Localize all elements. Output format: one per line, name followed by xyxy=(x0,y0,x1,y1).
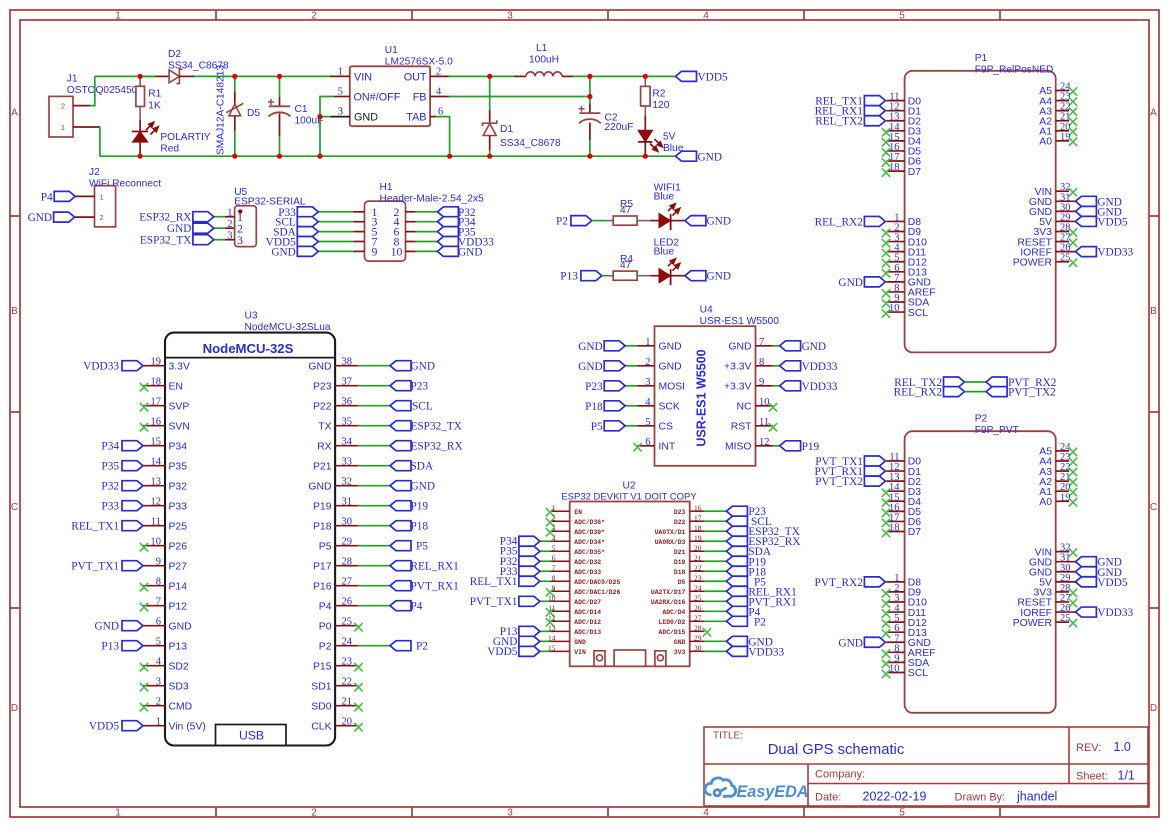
wire U2 P23 xyxy=(704,510,726,512)
svg-text:12: 12 xyxy=(759,437,770,448)
no-connect X xyxy=(546,608,554,616)
svg-text:ADC/D36*: ADC/D36* xyxy=(574,519,605,526)
net flag ESP32_TX xyxy=(390,421,411,431)
wire +12V top rail left xyxy=(95,75,156,77)
P1 pin 29 5V xyxy=(1039,212,1075,228)
P1 pin 18 D7 xyxy=(886,162,921,178)
no-connect X xyxy=(882,529,890,537)
svg-text:1: 1 xyxy=(645,337,650,348)
svg-text:D22: D22 xyxy=(674,519,686,526)
U2 pin 23 D5 xyxy=(678,573,705,585)
svg-text:POWER: POWER xyxy=(1013,257,1053,268)
svg-text:OUT: OUT xyxy=(404,72,427,84)
svg-text:USB: USB xyxy=(239,729,264,743)
H1 pins 3/4 xyxy=(353,215,416,229)
svg-text:USR-ES1 W5500: USR-ES1 W5500 xyxy=(700,316,780,327)
no-connect X xyxy=(882,168,890,176)
wire U2 PVT_RX1 xyxy=(704,600,726,602)
svg-text:19: 19 xyxy=(151,357,162,368)
U2 pin 8 ADC/DAC0/D25 xyxy=(551,573,621,585)
U2 pin 15 VIN xyxy=(548,644,586,656)
svg-text:ADC/D33: ADC/D33 xyxy=(574,569,601,576)
svg-text:7: 7 xyxy=(552,563,556,572)
wire U3 P19 xyxy=(358,505,390,507)
U3 pin 19 3.3V xyxy=(143,357,190,373)
svg-text:NC: NC xyxy=(736,402,752,413)
svg-text:D19: D19 xyxy=(674,559,686,566)
net flag GND xyxy=(726,636,747,646)
svg-text:GND: GND xyxy=(838,637,862,649)
U4 pin 4 SCK xyxy=(637,397,680,413)
svg-text:28: 28 xyxy=(342,557,353,568)
svg-text:1/1: 1/1 xyxy=(1118,769,1135,783)
P2 pin 16 D5 xyxy=(886,502,921,518)
svg-text:8: 8 xyxy=(759,357,764,368)
U4 pin 12 MISO xyxy=(725,437,773,453)
no-connect X xyxy=(703,628,711,636)
U3 pin 13 P32 xyxy=(143,477,187,493)
connector J2 WiFi Reconnect xyxy=(75,186,115,227)
svg-text:2: 2 xyxy=(156,697,161,708)
wire U2 P5 xyxy=(704,580,726,582)
regulator U1 LM2576SX-5.0 xyxy=(330,66,449,126)
svg-text:EN: EN xyxy=(574,509,582,516)
wire U3 GND xyxy=(358,485,390,487)
net flag GND xyxy=(193,223,214,233)
P1 pin 1 D8 xyxy=(886,212,921,228)
svg-text:Red: Red xyxy=(160,144,179,155)
svg-text:ADC/D13: ADC/D13 xyxy=(574,629,601,636)
U3 pin 8 P14 xyxy=(143,577,187,593)
net flag P35 xyxy=(519,546,540,556)
no-connect X xyxy=(882,589,890,597)
svg-text:CMD: CMD xyxy=(169,701,193,712)
svg-text:ESP32_RX: ESP32_RX xyxy=(411,441,463,453)
svg-text:27: 27 xyxy=(342,577,353,588)
P2 pin 12 D1 xyxy=(886,462,921,478)
no-connect X xyxy=(1069,138,1077,146)
svg-text:OSTOQ025450: OSTOQ025450 xyxy=(67,85,138,96)
svg-text:P32: P32 xyxy=(169,481,188,492)
wire ground bottom rail xyxy=(100,155,676,157)
net flag PVT_RX2 xyxy=(986,377,1007,387)
schottky diode D1 SS34_C8678 xyxy=(483,76,497,156)
U3 pin 2 CMD xyxy=(143,697,192,713)
svg-text:REL_RX1: REL_RX1 xyxy=(411,561,459,573)
svg-text:RX: RX xyxy=(317,441,332,452)
LED POLARTIY Red (reverse polarity indicator) xyxy=(132,120,158,156)
svg-text:19: 19 xyxy=(1060,492,1071,503)
svg-text:POLARTIY: POLARTIY xyxy=(160,132,210,143)
svg-text:ADC/D15: ADC/D15 xyxy=(659,629,686,636)
U2 pin 10 ADC/D27 xyxy=(548,593,601,605)
svg-text:5: 5 xyxy=(899,11,905,22)
svg-text:GND: GND xyxy=(578,361,602,373)
capacitor C2 220uF xyxy=(579,76,601,156)
svg-text:P2: P2 xyxy=(416,641,428,653)
P2 pin 23 A4 xyxy=(1039,452,1070,468)
svg-text:22: 22 xyxy=(694,563,702,572)
svg-text:P34: P34 xyxy=(169,441,188,452)
svg-text:GND: GND xyxy=(838,277,862,289)
net flag VDD33 xyxy=(122,361,143,371)
svg-text:GND: GND xyxy=(167,223,191,235)
svg-text:SCL: SCL xyxy=(908,308,928,319)
net flag P18 xyxy=(390,521,411,531)
no-connect X xyxy=(882,509,890,517)
net flag VDD5 xyxy=(1075,577,1096,587)
wire U4 P19 xyxy=(773,445,780,447)
U3 pin 30 P18 xyxy=(313,517,358,533)
svg-text:P21: P21 xyxy=(313,461,332,472)
svg-text:10: 10 xyxy=(391,244,403,258)
svg-text:2: 2 xyxy=(436,67,441,78)
P2 pin 18 D7 xyxy=(886,522,921,538)
P1 pin 16 D5 xyxy=(886,142,921,158)
svg-text:4: 4 xyxy=(645,397,651,408)
svg-text:7: 7 xyxy=(759,337,764,348)
EasyEDA logo xyxy=(705,778,736,796)
U4 pin 8 +3.3V xyxy=(724,357,773,373)
wire U2 P13 xyxy=(540,630,551,632)
svg-text:34: 34 xyxy=(342,437,353,448)
U2 pin 20 D21 xyxy=(674,543,705,555)
svg-text:P1: P1 xyxy=(975,53,988,64)
svg-text:VDD5: VDD5 xyxy=(89,721,119,733)
no-connect X xyxy=(546,518,554,526)
svg-text:47: 47 xyxy=(620,260,632,271)
svg-text:RST: RST xyxy=(731,422,752,433)
svg-text:P12: P12 xyxy=(169,601,188,612)
svg-text:LM2576SX-5.0: LM2576SX-5.0 xyxy=(385,57,453,68)
svg-text:A0: A0 xyxy=(1039,497,1052,508)
wire U3 REL_RX1 xyxy=(358,565,390,567)
net flag SCL xyxy=(726,516,747,526)
svg-text:ADC/D35*: ADC/D35* xyxy=(574,549,605,556)
wire ON#/OFF to ground xyxy=(320,97,334,157)
net flag GND xyxy=(519,636,540,646)
net flag PVT_TX2 xyxy=(864,476,885,486)
svg-text:3: 3 xyxy=(645,377,650,388)
no-connect X xyxy=(882,158,890,166)
net flag P5 xyxy=(726,576,747,586)
svg-text:Header-Male-2.54_2x5: Header-Male-2.54_2x5 xyxy=(380,194,485,205)
U4 pin 9 +3.3V xyxy=(724,377,773,393)
U3 pin 24 P2 xyxy=(319,637,359,653)
wire U4 VDD33 xyxy=(773,365,780,367)
U1 pin 3 GND xyxy=(330,116,350,118)
net flag VDD5 xyxy=(122,721,143,731)
U3 pin 33 P21 xyxy=(313,457,358,473)
svg-text:EN: EN xyxy=(169,381,183,392)
P1 pin 30 GND xyxy=(1029,202,1075,218)
net flag P23 xyxy=(726,506,747,516)
U3 pin 5 P13 xyxy=(143,637,187,653)
svg-text:Dual GPS schematic: Dual GPS schematic xyxy=(768,742,905,758)
wire U4 VDD33 xyxy=(773,385,780,387)
U4 pin 11 RST xyxy=(731,417,773,433)
svg-text:VDD33: VDD33 xyxy=(83,361,119,373)
net flag P2 xyxy=(390,641,411,651)
no-connect X xyxy=(882,138,890,146)
svg-text:24: 24 xyxy=(694,583,702,592)
U3 pin 12 P33 xyxy=(143,497,187,513)
svg-text:VDD5: VDD5 xyxy=(487,646,517,658)
U1 pin 2 OUT xyxy=(430,75,449,77)
P2 pin 29 5V xyxy=(1039,573,1075,589)
U3 pin 29 P5 xyxy=(319,537,359,553)
P1 pin 23 A4 xyxy=(1039,92,1070,108)
svg-text:C: C xyxy=(1150,502,1157,513)
wire U2 ESP32_TX xyxy=(704,530,726,532)
LED 5V Blue xyxy=(638,115,662,156)
svg-text:3.3V: 3.3V xyxy=(169,361,190,372)
P1 pin 7 GND xyxy=(886,273,930,289)
svg-text:P17: P17 xyxy=(313,561,332,572)
svg-text:R1: R1 xyxy=(148,89,161,100)
no-connect X xyxy=(882,229,890,237)
U2 pin 14 GND xyxy=(548,634,586,646)
no-connect X xyxy=(882,599,890,607)
svg-text:21: 21 xyxy=(342,697,353,708)
P2 pin 10 SCL xyxy=(886,663,928,679)
U3 pin 11 P25 xyxy=(143,517,187,533)
svg-text:14: 14 xyxy=(151,457,162,468)
svg-text:6: 6 xyxy=(156,617,161,628)
net flag GND xyxy=(390,361,411,371)
wire U3 PVT_RX1 xyxy=(358,585,390,587)
svg-text:26: 26 xyxy=(694,604,702,613)
wire U4 GND xyxy=(625,345,637,347)
svg-text:1: 1 xyxy=(115,11,121,22)
svg-text:5: 5 xyxy=(645,417,650,428)
svg-text:SD2: SD2 xyxy=(169,661,189,672)
U2 pin 26 ADC/D4 xyxy=(662,604,704,616)
svg-text:B: B xyxy=(11,306,18,317)
U3 pin 36 P22 xyxy=(313,397,358,413)
no-connect X xyxy=(882,660,890,668)
no-connect X xyxy=(882,299,890,307)
wire U4 GND xyxy=(773,345,780,347)
module U3 NodeMCU-32S xyxy=(71,333,462,746)
wire U3 SCL xyxy=(358,405,390,407)
svg-text:24: 24 xyxy=(342,637,353,648)
svg-text:SCL: SCL xyxy=(908,668,928,679)
module U2 ESP32 DEVKIT V1 DOIT COPY xyxy=(470,502,801,667)
net flag P23 xyxy=(390,381,411,391)
svg-text:UA2RX/D16: UA2RX/D16 xyxy=(651,599,686,606)
junction dots power rails xyxy=(138,74,143,79)
svg-text:16: 16 xyxy=(151,417,162,428)
svg-text:P23: P23 xyxy=(313,381,332,392)
svg-text:PVT_TX2: PVT_TX2 xyxy=(1008,387,1056,399)
svg-text:P4: P4 xyxy=(319,601,332,612)
U5 pin 2 xyxy=(225,219,243,235)
svg-text:UA0RX/D3: UA0RX/D3 xyxy=(655,539,686,546)
net flag P13 xyxy=(519,626,540,636)
svg-text:ADC/D39*: ADC/D39* xyxy=(574,529,605,536)
U2 pin 29 GND xyxy=(674,634,705,646)
wire U5 ESP32_RX xyxy=(214,216,225,218)
net flag GND xyxy=(685,216,706,226)
U2 pin 11 ADC/D14 xyxy=(548,604,601,616)
no-connect X xyxy=(882,619,890,627)
svg-text:CS: CS xyxy=(659,422,674,433)
no-connect X xyxy=(1069,228,1077,236)
svg-text:P4: P4 xyxy=(411,601,423,613)
wire H1 left GND xyxy=(318,250,353,252)
net flag PVT_TX1 xyxy=(519,596,540,606)
svg-text:D2: D2 xyxy=(168,49,181,60)
svg-text:18: 18 xyxy=(889,162,900,173)
svg-text:27: 27 xyxy=(694,614,702,623)
U3 pin 16 SVN xyxy=(143,417,190,433)
wire U2 P4 xyxy=(704,610,726,612)
svg-text:H1: H1 xyxy=(380,182,393,193)
svg-text:10: 10 xyxy=(759,397,770,408)
svg-text:+3.3V: +3.3V xyxy=(724,382,752,393)
net flag PVT_RX1 xyxy=(864,466,885,476)
net flag P5 xyxy=(390,541,411,551)
svg-text:U4: U4 xyxy=(700,305,713,316)
wire U2 VDD5 xyxy=(540,650,551,652)
U3 pin 23 P15 xyxy=(313,657,358,673)
P1 pin 11 D0 xyxy=(886,92,921,108)
P2 pin 14 D3 xyxy=(886,482,921,498)
svg-text:15: 15 xyxy=(151,437,162,448)
svg-text:D18: D18 xyxy=(674,569,686,576)
svg-text:23: 23 xyxy=(694,573,702,582)
P1 pin 24 A5 xyxy=(1039,82,1071,98)
svg-text:ON#/OFF: ON#/OFF xyxy=(354,92,401,104)
no-connect X xyxy=(1069,498,1077,506)
no-connect X xyxy=(882,489,890,497)
P2 pin 22 A3 xyxy=(1039,462,1070,478)
P1 pin 27 RESET xyxy=(1017,233,1070,249)
U3 pin 32 GND xyxy=(308,477,358,493)
no-connect X xyxy=(1069,468,1077,476)
svg-text:SS34_C8678: SS34_C8678 xyxy=(500,138,561,149)
svg-text:A: A xyxy=(11,108,18,119)
U5 pin 3 xyxy=(225,231,243,247)
wire U2 GND xyxy=(540,640,551,642)
svg-text:P35: P35 xyxy=(169,461,188,472)
wire REL_RX2 to PVT_TX2 xyxy=(965,391,987,393)
no-connect X xyxy=(769,423,777,431)
svg-text:GND: GND xyxy=(578,341,602,353)
svg-text:2: 2 xyxy=(311,808,317,819)
svg-text:ADC/D27: ADC/D27 xyxy=(574,599,601,606)
wire U2 SDA xyxy=(704,550,726,552)
wire U4 P18 xyxy=(625,405,637,407)
svg-text:30: 30 xyxy=(342,517,353,528)
net flag VDD33 xyxy=(780,381,801,391)
wire U1 FB to C2 xyxy=(449,96,590,98)
no-connect X xyxy=(140,703,148,711)
svg-text:2: 2 xyxy=(227,219,232,230)
svg-text:3: 3 xyxy=(227,231,232,242)
svg-text:1: 1 xyxy=(156,717,161,728)
svg-text:UA2TX/D17: UA2TX/D17 xyxy=(651,589,686,596)
P1 pin 20 A1 xyxy=(1039,122,1070,138)
svg-text:C1: C1 xyxy=(295,104,308,115)
svg-text:GND: GND xyxy=(28,212,52,224)
svg-text:GND: GND xyxy=(707,271,731,283)
U3 pin 9 P27 xyxy=(143,557,187,573)
net flag GND xyxy=(437,246,458,256)
inductor L1 100uH xyxy=(514,72,573,77)
svg-text:18: 18 xyxy=(694,523,702,532)
U2 pin 2 ADC/D36* xyxy=(551,513,606,525)
svg-text:VDD5: VDD5 xyxy=(1097,577,1127,589)
svg-text:GND: GND xyxy=(707,216,731,228)
connector P1 F9P_RelPosNED xyxy=(815,71,1134,353)
svg-text:4: 4 xyxy=(156,657,162,668)
wire H1 right P32 xyxy=(416,211,438,213)
wire U3 P5 xyxy=(358,545,390,547)
svg-text:5V: 5V xyxy=(663,132,676,143)
U3 pin 28 P17 xyxy=(313,557,358,573)
wire U3 ESP32_TX xyxy=(358,425,390,427)
svg-text:20: 20 xyxy=(342,717,353,728)
P2 pin 25 POWER xyxy=(1013,613,1071,629)
no-connect X xyxy=(1069,458,1077,466)
no-connect X xyxy=(1069,589,1077,597)
U3 pin 34 RX xyxy=(317,437,358,453)
P1 pin 19 A0 xyxy=(1039,132,1070,148)
svg-text:3: 3 xyxy=(156,677,161,688)
svg-text:4: 4 xyxy=(552,533,556,542)
net flag P13 xyxy=(581,271,602,281)
svg-text:USR-ES1 W5500: USR-ES1 W5500 xyxy=(695,349,709,446)
U3 pin 38 GND xyxy=(308,357,358,373)
U4 pin 3 MOSI xyxy=(637,377,685,393)
net flag GND xyxy=(604,361,625,371)
svg-text:SMAJ12A-C148213: SMAJ12A-C148213 xyxy=(216,65,227,155)
svg-text:PVT_TX2: PVT_TX2 xyxy=(815,476,863,488)
svg-text:D: D xyxy=(1150,703,1157,714)
wire U2 PVT_TX1 xyxy=(540,600,551,602)
svg-text:FB: FB xyxy=(413,92,427,104)
net flag PVT_RX2 xyxy=(864,577,885,587)
svg-text:P18: P18 xyxy=(411,521,429,533)
svg-text:A0: A0 xyxy=(1039,137,1052,148)
P1 pin 22 A3 xyxy=(1039,102,1070,118)
wire U4 GND xyxy=(625,365,637,367)
P1 pin 6 D13 xyxy=(886,263,927,279)
svg-text:REV:: REV: xyxy=(1076,742,1101,754)
no-connect X xyxy=(1069,478,1077,486)
net flag REL_TX1 xyxy=(864,96,885,106)
net flag P35 xyxy=(437,227,458,237)
svg-text:P2: P2 xyxy=(975,413,988,424)
P2 pin 28 3V3 xyxy=(1034,583,1071,599)
net flag GND xyxy=(685,271,706,281)
no-connect X xyxy=(882,148,890,156)
svg-text:GND: GND xyxy=(698,151,722,163)
wire U3 GND xyxy=(358,365,390,367)
svg-text:D: D xyxy=(11,703,18,714)
U3 USB connector box xyxy=(216,725,287,746)
no-connect X xyxy=(882,519,890,527)
svg-text:Sheet:: Sheet: xyxy=(1076,771,1108,783)
svg-text:ADC/DAC1/D26: ADC/DAC1/D26 xyxy=(574,589,620,596)
svg-text:P27: P27 xyxy=(169,561,188,572)
svg-text:P18: P18 xyxy=(585,401,603,413)
U3 pin 18 EN xyxy=(143,377,183,393)
svg-text:2022-02-19: 2022-02-19 xyxy=(863,790,927,804)
net flag VDD5 xyxy=(676,71,697,81)
